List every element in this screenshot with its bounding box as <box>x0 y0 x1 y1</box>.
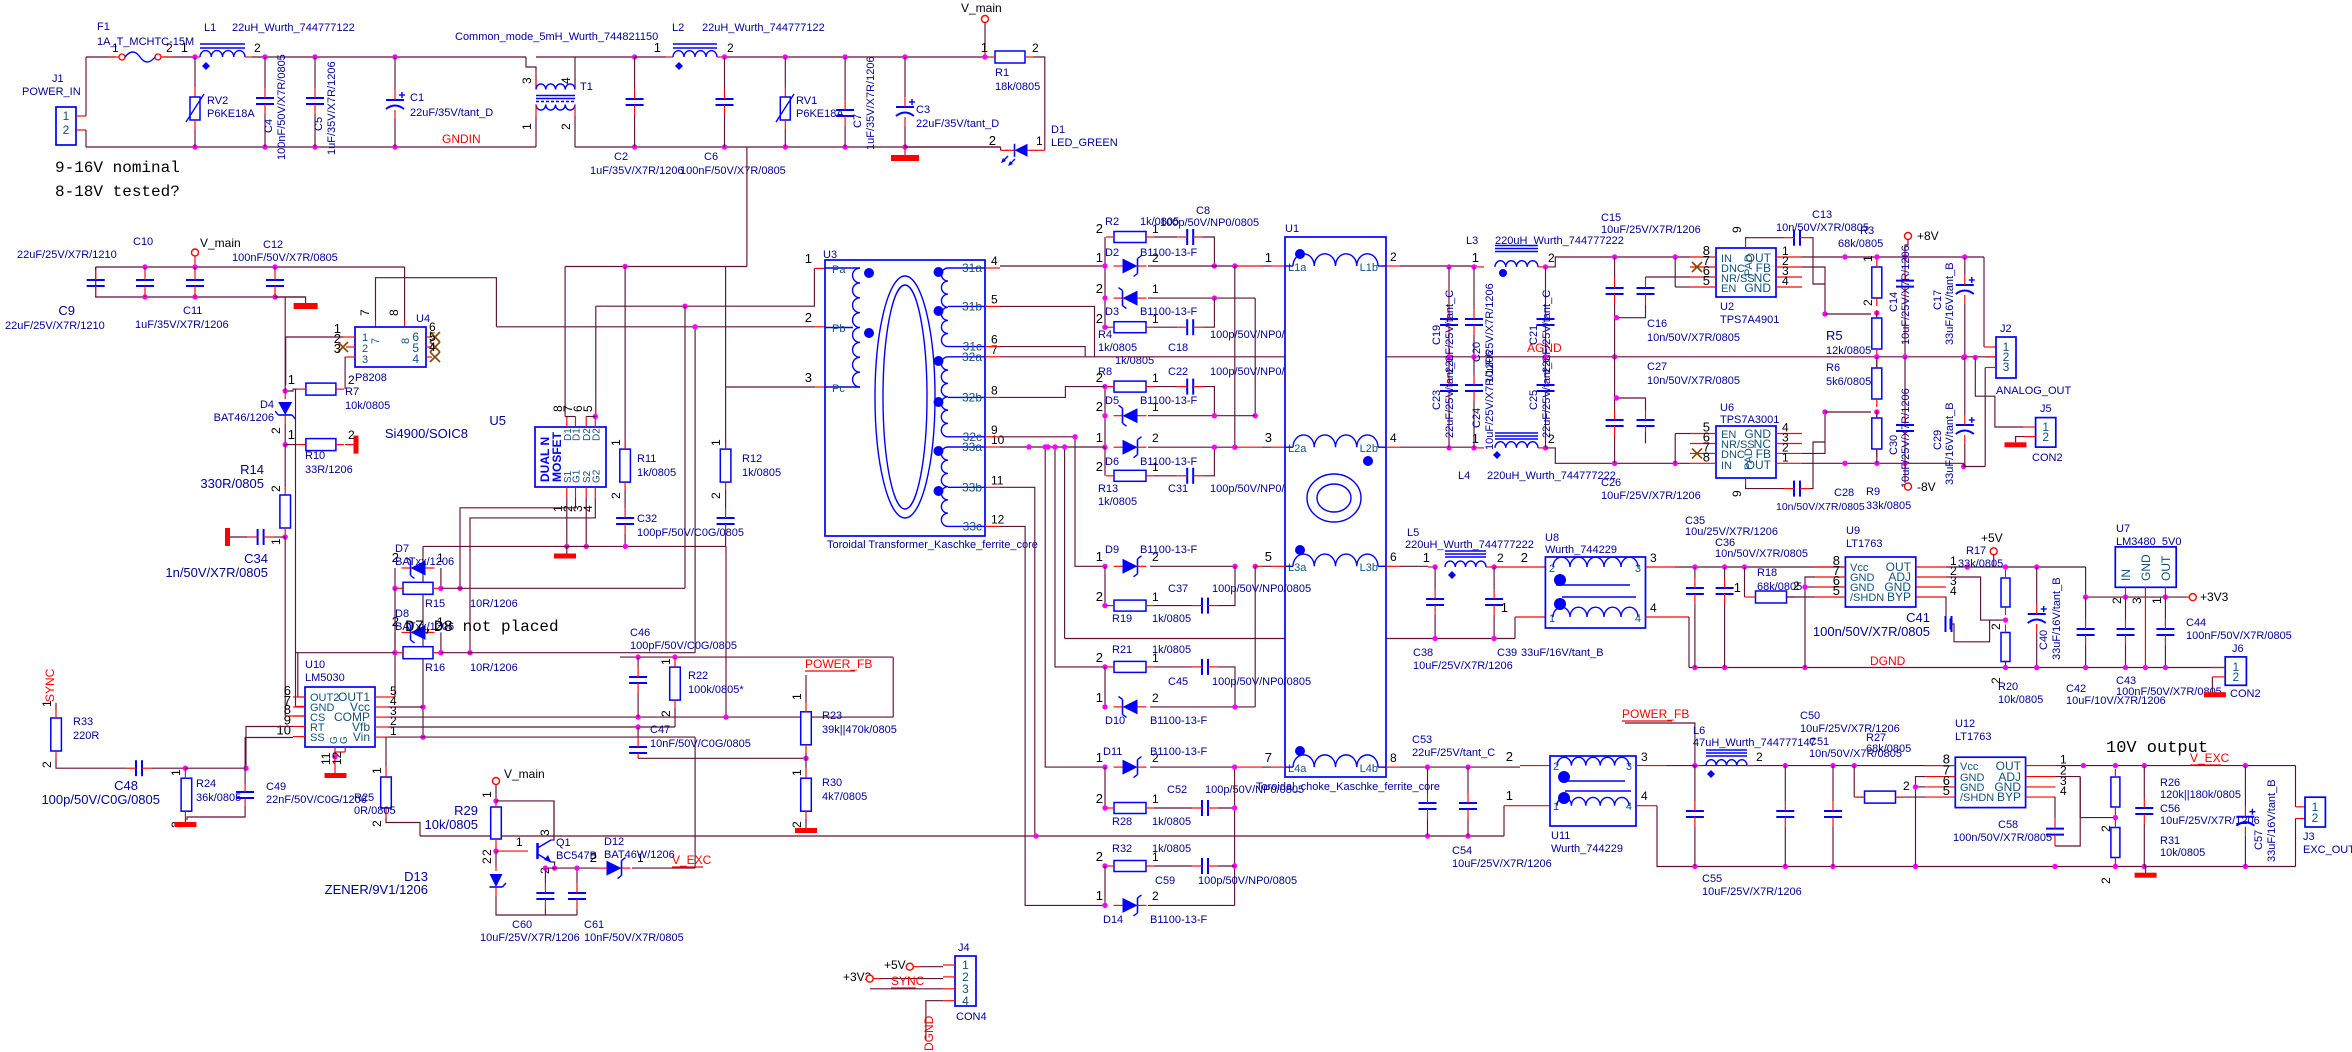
svg-text:2: 2 <box>2099 877 2113 884</box>
wire V_main bus to U4 pin8 <box>404 267 406 321</box>
svg-text:R18: R18 <box>1757 567 1777 579</box>
capacitor C23 <box>1440 384 1458 386</box>
resistor R12 <box>720 449 731 482</box>
resistor R13 <box>1114 470 1146 481</box>
U10 bottom pins 11 12 to ground <box>334 747 336 757</box>
svg-text:1k/0805: 1k/0805 <box>1152 816 1191 828</box>
svg-text:R25: R25 <box>354 792 374 804</box>
svg-text:1: 1 <box>1096 430 1103 445</box>
svg-text:8: 8 <box>387 309 401 316</box>
svg-text:10uF/25V/X7R/1206: 10uF/25V/X7R/1206 <box>1702 886 1802 898</box>
junction dots AGND upper caps <box>1446 354 1451 359</box>
svg-text:3: 3 <box>805 370 812 385</box>
svg-text:C31: C31 <box>1168 483 1188 495</box>
svg-text:C21: C21 <box>1528 325 1540 345</box>
svg-text:10uF/25V/X7R/1206: 10uF/25V/X7R/1206 <box>1900 388 1912 488</box>
svg-text:R12: R12 <box>742 453 762 465</box>
svg-text:2: 2 <box>1096 459 1103 474</box>
svg-text:G2: G2 <box>591 469 602 483</box>
wire SS pin to C49 <box>245 738 293 785</box>
svg-text:EN: EN <box>1721 283 1736 295</box>
wire rail after L2 <box>725 56 986 58</box>
capacitor C4 <box>264 57 266 88</box>
svg-text:8: 8 <box>1703 449 1710 464</box>
ground bar V_main bank <box>275 297 306 303</box>
capacitor C50 <box>1776 810 1794 812</box>
svg-text:31b: 31b <box>962 299 982 313</box>
svg-text:CON4: CON4 <box>956 1011 987 1023</box>
wire ground rail up to U11 pin1 <box>1503 806 1505 836</box>
wire emitter to V_EXC row <box>551 862 555 868</box>
svg-text:1: 1 <box>1472 250 1479 265</box>
svg-text:V_main: V_main <box>200 236 241 250</box>
capacitor C34 <box>257 529 259 545</box>
wire U9 ADJ to divider <box>1946 577 2006 620</box>
connector J5 CON2 <box>2036 418 2056 448</box>
svg-text:1: 1 <box>1096 250 1103 265</box>
svg-text:1uF/35V/X7R/1206: 1uF/35V/X7R/1206 <box>865 56 877 150</box>
wire Vcc rail to U9 <box>1742 564 1747 569</box>
svg-text:C10: C10 <box>133 236 153 248</box>
svg-text:12: 12 <box>330 751 344 765</box>
wire bottom input rail <box>86 146 536 148</box>
capacitor C29 polarized <box>1956 424 1974 426</box>
IC U4 P8208 <box>355 327 426 367</box>
svg-text:10n/50V/X7R/0805: 10n/50V/X7R/0805 <box>1776 222 1869 234</box>
svg-text:1: 1 <box>269 538 283 545</box>
U1 toroid core circles <box>1307 474 1361 522</box>
svg-text:C42: C42 <box>2066 683 2086 695</box>
svg-text:C51: C51 <box>1809 736 1829 748</box>
svg-text:1: 1 <box>709 439 723 446</box>
wire left ground return rail <box>420 835 1504 837</box>
svg-text:ZENER/9V1/1206: ZENER/9V1/1206 <box>325 882 428 897</box>
capacitor C17 polarized <box>1956 284 1974 286</box>
IC U3 toroidal transformer <box>825 260 985 536</box>
U6 pin7 unconnected X <box>1692 448 1702 458</box>
svg-text:R5: R5 <box>1826 328 1843 343</box>
capacitor C59 <box>1201 858 1203 874</box>
U4 pin6 unconnected <box>426 336 432 338</box>
junction R24 top <box>183 766 188 771</box>
svg-text:B1100-13-F: B1100-13-F <box>1140 395 1198 407</box>
svg-text:J3: J3 <box>2303 831 2315 843</box>
wire U6 OUT rail <box>1802 462 1964 464</box>
svg-text:2: 2 <box>63 123 70 137</box>
svg-text:C39: C39 <box>1497 647 1517 659</box>
svg-text:2: 2 <box>2232 670 2239 684</box>
wire U2 FB network <box>1802 267 1825 314</box>
svg-text:L6: L6 <box>1693 725 1705 737</box>
svg-text:1: 1 <box>1152 312 1159 326</box>
svg-text:4: 4 <box>1390 431 1397 445</box>
svg-text:6: 6 <box>1390 550 1397 564</box>
svg-text:4: 4 <box>2060 784 2067 798</box>
svg-text:C55: C55 <box>1702 873 1722 885</box>
diode D8 BATxx not placed <box>411 625 426 640</box>
wire D9 out to L3a <box>1150 565 1235 567</box>
svg-text:2: 2 <box>2312 811 2319 825</box>
svg-text:/SHDN: /SHDN <box>1850 592 1884 604</box>
wire group6 bus <box>1104 866 1106 905</box>
connector J4 CON4 <box>955 956 976 1006</box>
supply flag -8V <box>1905 483 1912 490</box>
svg-text:PAD: PAD <box>1743 254 1755 276</box>
capacitor C36 <box>1716 587 1734 589</box>
svg-text:C53: C53 <box>1412 734 1432 746</box>
diode D14 <box>1123 898 1138 913</box>
svg-text:120k||180k/0805: 120k||180k/0805 <box>2160 789 2241 801</box>
svg-text:10uF/25V/X7R/1206: 10uF/25V/X7R/1206 <box>480 932 580 944</box>
inductor L5 <box>1445 561 1486 567</box>
svg-text:C30: C30 <box>1888 435 1900 455</box>
svg-text:F1: F1 <box>97 21 110 33</box>
svg-text:R4: R4 <box>1098 329 1112 341</box>
capacitor C26 <box>1606 419 1624 421</box>
svg-text:2: 2 <box>1096 281 1103 296</box>
wire D6 out to trunk <box>1148 446 1235 448</box>
svg-text:9-16V nominal: 9-16V nominal <box>55 159 180 177</box>
svg-text:31a: 31a <box>962 261 982 275</box>
svg-text:POWER_FB: POWER_FB <box>1622 707 1689 721</box>
svg-text:1: 1 <box>1152 590 1159 604</box>
svg-text:D3: D3 <box>1105 306 1119 318</box>
svg-text:2: 2 <box>269 485 283 492</box>
U3 secondary windings <box>941 268 948 347</box>
wire RT pin to R24 row <box>246 727 293 769</box>
svg-text:C23: C23 <box>1431 390 1443 410</box>
svg-text:TPS7A4901: TPS7A4901 <box>1720 314 1779 326</box>
U2 pad pin9 wire <box>1745 241 1747 248</box>
AGND rail <box>1000 356 1285 358</box>
svg-text:10k/0805: 10k/0805 <box>345 400 390 412</box>
resistor R25 <box>381 777 392 808</box>
svg-text:5: 5 <box>1703 273 1710 288</box>
svg-text:2: 2 <box>1152 431 1159 445</box>
wire trunk D3-D5 <box>1254 298 1256 416</box>
svg-text:2: 2 <box>1032 41 1039 55</box>
wire L4 to U6 IN rail <box>1546 448 1691 463</box>
U4 pin5 unconnected <box>426 346 432 348</box>
svg-text:ANALOG_OUT: ANALOG_OUT <box>1996 385 2071 397</box>
svg-text:2: 2 <box>480 857 494 864</box>
svg-text:2: 2 <box>1506 749 1513 764</box>
wire transformer pin5 to AGND <box>1000 306 1095 356</box>
capacitor C35 <box>1686 587 1704 589</box>
wire U7 bottom rail <box>2086 596 2186 598</box>
supply flag V_main mid <box>192 249 199 256</box>
svg-text:1n/50V/X7R/0805: 1n/50V/X7R/0805 <box>165 565 268 580</box>
capacitor C57 polarized <box>2236 816 2254 818</box>
svg-text:4: 4 <box>581 505 595 512</box>
capacitor C41 <box>1945 597 1947 618</box>
svg-text:100p/50V/NP0/0805: 100p/50V/NP0/0805 <box>1160 217 1259 229</box>
wire CS row drop to Vcc/Vin <box>422 546 424 737</box>
wire D8 snubber riser to Pb net <box>694 327 696 653</box>
svg-text:68k/0805: 68k/0805 <box>1757 581 1802 593</box>
svg-text:1: 1 <box>480 791 494 798</box>
svg-text:P6KE18A: P6KE18A <box>207 108 255 120</box>
svg-text:10: 10 <box>277 723 291 738</box>
svg-text:1: 1 <box>1734 580 1741 595</box>
svg-text:2: 2 <box>709 492 723 499</box>
wire R16 row to snubber riser <box>441 652 695 654</box>
svg-text:D6: D6 <box>1105 456 1119 468</box>
ground GNDIN bar <box>904 147 906 155</box>
capacitor C46 <box>637 657 639 667</box>
capacitor C15 <box>1606 287 1624 289</box>
V_EXC section ground rail <box>1666 866 2296 868</box>
wire R14 to C34 node <box>284 536 286 537</box>
diode D5 <box>1123 408 1138 423</box>
svg-text:D1: D1 <box>1051 124 1065 136</box>
resistor R2 <box>1114 232 1146 243</box>
ground U5 sources <box>564 553 566 555</box>
wire R25 bottom <box>386 818 420 836</box>
ground bar U10 <box>325 773 347 778</box>
U2 pin7 unconnected X <box>1692 262 1702 272</box>
capacitor C11 <box>192 264 197 269</box>
svg-text:L4a: L4a <box>1288 763 1307 775</box>
svg-text:R7: R7 <box>345 386 359 398</box>
svg-text:1: 1 <box>1096 750 1103 765</box>
svg-text:SS: SS <box>310 732 325 744</box>
capacitor C55 <box>1686 810 1704 812</box>
wire transformer pin10 branch to R21 row <box>1055 447 1105 667</box>
svg-text:C5: C5 <box>313 117 325 131</box>
svg-text:C1: C1 <box>410 92 424 104</box>
svg-text:33k/0805: 33k/0805 <box>1958 558 2003 570</box>
svg-text:C37: C37 <box>1168 583 1188 595</box>
svg-text:1: 1 <box>805 251 812 266</box>
diode D12 BAT46W <box>607 861 622 876</box>
svg-text:C22: C22 <box>1168 366 1188 378</box>
svg-text:C16: C16 <box>1647 318 1667 330</box>
svg-text:U10: U10 <box>305 659 325 671</box>
svg-text:5: 5 <box>1943 783 1950 798</box>
IC U2 TPS7A4901 <box>1716 248 1776 297</box>
svg-text:4: 4 <box>429 340 436 354</box>
svg-text:2: 2 <box>1096 791 1103 806</box>
svg-text:C50: C50 <box>1800 710 1820 722</box>
svg-text:POWER_IN: POWER_IN <box>22 86 81 98</box>
svg-text:3: 3 <box>1641 750 1648 764</box>
capacitor C47 <box>637 727 639 737</box>
capacitor C42 <box>2077 628 2095 630</box>
capacitor C60 <box>536 892 554 894</box>
resistor R20 <box>2001 633 2010 662</box>
resistor R16 <box>403 647 433 659</box>
svg-text:22uF/35V/tant_D: 22uF/35V/tant_D <box>916 118 999 130</box>
svg-text:4: 4 <box>962 994 969 1008</box>
capacitor C3 polarized <box>902 54 907 59</box>
fuse F1 <box>119 54 125 60</box>
svg-text:2: 2 <box>1096 589 1103 604</box>
wire C34 node to U10 CS pin <box>284 537 286 716</box>
wire G2 drive <box>470 498 595 653</box>
svg-text:100nF/50V/X7R/0805: 100nF/50V/X7R/0805 <box>680 165 786 177</box>
svg-text:GND: GND <box>2139 554 2153 581</box>
diode D9 <box>1123 559 1138 574</box>
IC U5 dual N mosfet Si4900 <box>535 427 606 487</box>
capacitor C61 <box>568 892 586 894</box>
resistor R18 <box>1756 591 1787 603</box>
svg-text:2: 2 <box>659 710 673 717</box>
svg-text:2: 2 <box>1390 250 1397 264</box>
svg-text:U2: U2 <box>1720 301 1734 313</box>
svg-text:D7: D7 <box>395 543 409 555</box>
capacitor C24 <box>1465 384 1483 386</box>
wire group1 left bus <box>1104 237 1106 327</box>
ground bar R30 <box>805 819 807 828</box>
resistor R24 <box>181 778 192 811</box>
svg-text:10nF/50V/X7R/0805: 10nF/50V/X7R/0805 <box>584 932 684 944</box>
svg-text:1: 1 <box>390 724 397 738</box>
svg-text:G1: G1 <box>572 469 583 483</box>
svg-text:8: 8 <box>1390 751 1397 765</box>
svg-text:U8: U8 <box>1545 532 1559 544</box>
svg-text:11: 11 <box>991 473 1004 487</box>
svg-text:10: 10 <box>991 433 1005 447</box>
wire U6 FB network <box>1802 412 1825 453</box>
wire U9 GND pins to DGND <box>1805 577 1815 668</box>
capacitor C38 <box>1426 598 1444 600</box>
inductor L6 <box>1695 765 1700 767</box>
svg-text:10k/0805: 10k/0805 <box>2160 847 2205 859</box>
wire collector <box>551 801 554 840</box>
svg-text:1: 1 <box>659 658 673 665</box>
svg-text:3: 3 <box>1635 563 1641 575</box>
capacitor C44 <box>2156 628 2174 630</box>
capacitor C54 <box>1459 802 1477 804</box>
svg-text:1uF/35V/X7R/1206: 1uF/35V/X7R/1206 <box>135 319 229 331</box>
diode D7 BATxx not placed <box>411 561 426 576</box>
svg-text:3: 3 <box>1650 551 1657 565</box>
resistor R27 <box>1865 791 1896 803</box>
svg-text:C27: C27 <box>1647 361 1667 373</box>
svg-text:C47: C47 <box>650 724 670 736</box>
svg-text:1: 1 <box>288 372 295 387</box>
diode D6 <box>1123 440 1138 455</box>
wire C33 bottom to COMP line <box>725 546 727 717</box>
capacitor C25 post L4 <box>1543 445 1548 450</box>
svg-text:9: 9 <box>1730 226 1744 233</box>
resistor R28 <box>1114 803 1146 814</box>
svg-text:R29: R29 <box>454 803 478 818</box>
wire drain D2 vertical <box>595 306 597 416</box>
diode D2 <box>1123 259 1138 274</box>
svg-text:V_main: V_main <box>961 1 1002 15</box>
svg-text:2: 2 <box>1553 761 1559 773</box>
svg-text:0R/0805: 0R/0805 <box>354 805 396 817</box>
svg-text:PAD: PAD <box>1743 448 1755 470</box>
svg-text:BAT46/1206: BAT46/1206 <box>214 412 274 424</box>
resistor R4 <box>1114 322 1146 333</box>
svg-text:68k/0805: 68k/0805 <box>1866 743 1911 755</box>
IC U1 toroidal choke <box>1285 237 1386 777</box>
svg-text:1k/0805: 1k/0805 <box>1152 644 1191 656</box>
wire D13 bottom row <box>496 896 577 915</box>
capacitor C19 <box>1440 318 1458 320</box>
svg-text:C7: C7 <box>852 114 864 128</box>
svg-text:10uF/25V/X7R/1206: 10uF/25V/X7R/1206 <box>1900 245 1912 345</box>
capacitor C32 <box>624 490 626 508</box>
svg-text:L1: L1 <box>204 22 216 34</box>
svg-text:U5: U5 <box>489 413 506 428</box>
svg-text:C11: C11 <box>183 305 202 317</box>
svg-text:33uF/16V/tant_B: 33uF/16V/tant_B <box>1944 402 1956 485</box>
svg-text:U11: U11 <box>1551 830 1570 842</box>
svg-text:2: 2 <box>1989 623 2003 630</box>
svg-text:D7,D8 not placed: D7,D8 not placed <box>405 618 559 636</box>
svg-text:100pF/50V/C0G/0805: 100pF/50V/C0G/0805 <box>630 640 737 652</box>
wire bus2 to D4 node <box>284 297 286 391</box>
svg-text:1A_T_MCHTC-15M: 1A_T_MCHTC-15M <box>97 36 194 48</box>
svg-text:1: 1 <box>520 123 534 130</box>
capacitor C9 <box>95 267 97 270</box>
wire transformer pin10 row <box>1000 446 1105 448</box>
svg-text:22uH_Wurth_744777122: 22uH_Wurth_744777122 <box>232 22 355 34</box>
svg-text:TPS7A3001: TPS7A3001 <box>1720 414 1779 426</box>
svg-text:4: 4 <box>991 254 998 268</box>
svg-text:3: 3 <box>2130 597 2144 604</box>
capacitor C39 <box>1485 598 1503 600</box>
svg-text:2: 2 <box>727 41 734 55</box>
varistor RV1 <box>783 54 788 59</box>
svg-text:V_main: V_main <box>504 767 545 781</box>
svg-text:22uF/35V/tant_D: 22uF/35V/tant_D <box>410 107 493 119</box>
svg-text:2: 2 <box>254 41 261 55</box>
supply flag +5V <box>1990 548 1997 555</box>
svg-text:U12: U12 <box>1955 718 1975 730</box>
wire AGND to J2 pin2 <box>1985 356 1996 358</box>
transistor Q1 BC547B <box>496 850 528 852</box>
svg-text:R11: R11 <box>637 453 656 465</box>
capacitor C7 <box>842 54 847 59</box>
connector J6 CON2 <box>2225 657 2246 685</box>
svg-text:U1: U1 <box>1285 223 1299 235</box>
svg-text:C2: C2 <box>614 151 628 163</box>
inductor L4 <box>1495 442 1538 448</box>
resistor R11 <box>620 449 631 482</box>
svg-text:10uF/25V/X7R/1206: 10uF/25V/X7R/1206 <box>1601 224 1701 236</box>
svg-text:1: 1 <box>1423 550 1430 565</box>
wire R12 feed vertical <box>725 267 727 450</box>
svg-text:22uF/25V/X7R/1210: 22uF/25V/X7R/1210 <box>17 249 117 261</box>
svg-text:8-18V tested?: 8-18V tested? <box>55 183 180 201</box>
resistor R14 <box>284 445 286 487</box>
svg-text:-8V: -8V <box>1917 480 1936 494</box>
wire D11 out to L4a <box>1150 766 1235 768</box>
resistor R19 <box>1114 600 1146 611</box>
zener D13 <box>495 851 497 866</box>
svg-text:2: 2 <box>1152 691 1159 705</box>
wire Vin line <box>420 734 425 739</box>
svg-text:+3V3: +3V3 <box>2200 590 2229 604</box>
svg-text:C61: C61 <box>584 919 604 931</box>
resistor R29 <box>491 807 502 839</box>
svg-text:2: 2 <box>609 492 623 499</box>
connector J1 POWER_IN <box>56 107 76 145</box>
svg-text:4: 4 <box>1650 601 1657 615</box>
svg-text:C40: C40 <box>2038 630 2050 650</box>
wire group3 left bus <box>1104 566 1106 605</box>
svg-text:3: 3 <box>538 829 552 836</box>
svg-text:OUT: OUT <box>2159 555 2173 581</box>
inductor L2 <box>635 56 666 58</box>
svg-text:D9: D9 <box>1105 544 1119 556</box>
svg-text:D1: D1 <box>572 428 583 441</box>
